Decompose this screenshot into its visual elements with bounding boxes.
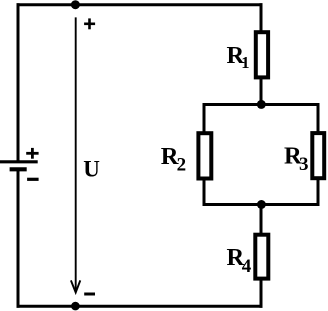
voltage arrow U shaft [75,17,77,291]
wire right branch lower [317,178,320,206]
wire left branch upper [203,103,206,133]
svg-text:3: 3 [299,154,309,175]
wire node B to R4 [260,205,263,235]
battery plus label [26,148,38,159]
wire right vertical top [260,3,263,32]
battery B1 positive plate [0,160,38,163]
wire bottom horizontal [17,305,263,308]
battery minus label [27,178,38,181]
wire parallel bottom [203,203,320,206]
node B junction [257,200,266,209]
node bottom junction [71,302,80,311]
battery B1 negative plate [10,167,27,171]
arrow minus label [84,293,95,296]
node top junction [71,0,80,9]
wire R1 to node A [260,77,263,105]
wire parallel top [203,103,320,106]
wire left vertical lower [17,169,20,307]
svg-text:2: 2 [177,154,187,175]
svg-text:1: 1 [241,53,249,72]
resistor R1 [256,32,268,77]
resistor R2 [198,133,211,178]
svg-text:4: 4 [242,256,252,277]
voltage arrow U head [71,280,80,292]
wire R4 to bottom [260,279,263,308]
wire left vertical upper [17,3,20,162]
wire top horizontal [17,3,263,6]
node A junction [257,100,266,109]
resistor R4 [255,235,268,279]
wire right branch upper [317,103,320,133]
arrow plus label [84,18,95,29]
resistor R3 [312,133,324,178]
svg-text:U: U [83,157,100,182]
wire left branch lower [203,179,206,207]
